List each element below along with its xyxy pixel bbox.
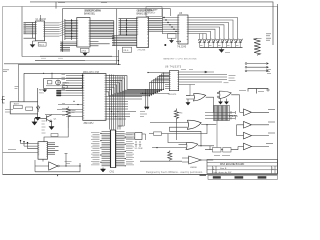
resistor RP1 zigzag <box>254 39 260 56</box>
hook bracket label <box>239 90 270 92</box>
latch cross dot B <box>200 145 202 147</box>
CPU U5 body <box>83 74 106 121</box>
CPU inner ticks left <box>83 76 85 119</box>
bank box 1 outline <box>63 9 171 52</box>
CN1 right pin labels <box>126 133 134 165</box>
IC U4 body <box>137 17 149 47</box>
connector bottom cap <box>110 167 116 169</box>
lower pin junction dots <box>110 109 121 119</box>
section bottom label -5.0V <box>41 57 63 59</box>
IC U1 left pins <box>24 22 36 38</box>
svg-text:Size B: Size B <box>220 168 227 170</box>
bank box right edge <box>170 9 172 16</box>
CPU left pin wires upper <box>61 76 83 96</box>
IC U3 body <box>178 15 188 44</box>
IC U3 left pin wires <box>162 18 178 34</box>
CN1 pin dots right <box>124 137 126 166</box>
IC U1 inner ticks <box>36 22 45 36</box>
B2 input <box>237 125 244 136</box>
B3 input <box>237 135 244 137</box>
bus arrow 2 dot <box>245 66 247 68</box>
bus arrow 3 dot <box>245 70 247 72</box>
frame bottom border <box>3 174 278 176</box>
oscillator crystal circle Y1 <box>56 80 61 85</box>
CN1 ground <box>100 168 105 173</box>
U3 bottom dot <box>164 44 166 46</box>
clock section wire <box>24 73 83 102</box>
A1 output <box>201 159 213 161</box>
B1 output <box>252 111 270 113</box>
title divider 2 <box>207 165 278 167</box>
wire bend U1 to bank1 <box>59 21 65 36</box>
svg-text:U1 LS138: U1 LS138 <box>36 19 47 21</box>
jumper box JA <box>213 148 222 153</box>
bank2 left rail <box>119 19 121 35</box>
ground G3 <box>49 122 54 130</box>
title divider 3 <box>207 169 278 171</box>
bottom strip left dash <box>200 174 207 176</box>
resistor network RN1 <box>214 106 230 121</box>
U3 ground <box>170 38 174 43</box>
svg-text:74LS373: 74LS373 <box>168 94 178 96</box>
U6 right wire arrow <box>204 71 207 73</box>
bottom strip dash 1 <box>213 176 221 178</box>
U7 input stubs with balls <box>21 144 39 149</box>
title cell line right2 <box>274 166 276 174</box>
IC U7 body <box>38 142 48 160</box>
CPU right bus staircase <box>106 73 169 96</box>
IC U1 left rail <box>31 22 33 38</box>
G3 output <box>231 95 239 112</box>
transistor Q1 <box>47 115 52 122</box>
left wire label <box>8 149 16 151</box>
B1 input <box>240 111 244 113</box>
bottom strip dash 1b <box>235 176 244 178</box>
IC U1 body <box>36 21 45 41</box>
jumper wires <box>205 147 238 150</box>
CN1 right pins <box>116 132 125 166</box>
svg-text:SELECT: SELECT <box>147 13 156 15</box>
U3 left junction dots diagonal <box>164 18 176 32</box>
drop labels <box>140 112 147 117</box>
diode row bottom bus <box>200 43 241 48</box>
X1 caps <box>135 141 141 147</box>
diode bottom rail <box>200 47 243 49</box>
G3 ground 1 <box>219 99 223 105</box>
svg-text:MSX ENGINE BOARD: MSX ENGINE BOARD <box>220 163 244 166</box>
opamp A1 <box>189 156 202 164</box>
frame right border <box>277 4 279 175</box>
B4 input <box>238 146 244 148</box>
diode D10 <box>36 105 39 112</box>
connector top cap <box>110 129 116 131</box>
G2 input wires <box>150 122 188 124</box>
wire riser bank2 <box>116 50 118 64</box>
wire below U6 <box>140 92 169 94</box>
frame bottom tick <box>57 175 59 177</box>
B1 label <box>268 109 275 111</box>
jumper label text <box>214 155 230 157</box>
left edge net label up <box>3 70 9 72</box>
connector CN1 body bar right <box>115 130 117 168</box>
svg-text:27C256: 27C256 <box>138 50 146 52</box>
title cell line left <box>212 166 214 174</box>
bus drop arrowheads <box>144 107 149 109</box>
diode array extra drops <box>200 34 203 40</box>
rail riser dots <box>118 61 120 65</box>
resistor R4 zigzag <box>174 109 178 121</box>
top edge label <box>58 2 107 4</box>
title divider 1 <box>207 161 278 163</box>
rail riser <box>118 50 120 64</box>
battery cell box 1 <box>14 105 23 109</box>
svg-text:CN1: CN1 <box>110 172 115 174</box>
crystal box X1 <box>135 133 142 140</box>
G3 input bubbles <box>217 92 219 94</box>
CPU left pin wires lower <box>57 105 83 117</box>
IC U3 inner ticks <box>178 18 188 40</box>
left edge clock labels <box>15 87 19 89</box>
svg-text:BANK0 SEL: BANK0 SEL <box>84 13 96 16</box>
svg-text:BATT: BATT <box>14 103 20 106</box>
R4 drop <box>176 121 178 141</box>
U7 inner ticks <box>38 144 48 157</box>
small box K1 <box>154 132 162 135</box>
wire rail B <box>35 60 85 62</box>
G4 output <box>198 146 214 150</box>
Q1 collector wire <box>45 114 68 117</box>
svg-text:MEMORY 1 CPU SECTIONS: MEMORY 1 CPU SECTIONS <box>164 59 198 61</box>
U7 loop wire <box>35 159 80 172</box>
IC U6 inner ticks <box>169 73 178 89</box>
OR gate G3 <box>219 91 231 98</box>
CPU left pin labels <box>58 75 66 116</box>
bank2 label box <box>122 47 131 52</box>
bank1 junction dots <box>71 21 73 37</box>
left border connector mark <box>2 97 6 104</box>
Y1 vertical line <box>57 80 59 85</box>
N1 output label <box>65 162 72 164</box>
hook bracket J2 <box>248 89 268 94</box>
bank2 lower-left bundle <box>112 36 137 46</box>
IC U6 body <box>169 71 178 91</box>
pin junction dots <box>74 101 78 104</box>
U6 lower left stubs <box>165 85 169 89</box>
buffer B3 <box>244 132 252 139</box>
ground G2 <box>32 118 37 125</box>
bank2 junction dots <box>126 20 128 34</box>
bus arrow 2 <box>247 66 269 68</box>
G4 input dot <box>156 147 158 149</box>
oscillator cap box <box>63 85 68 88</box>
bank box divider <box>116 9 118 50</box>
IC U4 right pin wires <box>149 19 163 32</box>
bank2 left rail B <box>126 19 128 35</box>
B2 label <box>268 121 275 123</box>
clock wire dots <box>44 72 52 74</box>
U6 right wire labels <box>224 76 236 83</box>
buffer B4 <box>244 143 252 150</box>
below U6 dots <box>143 73 148 94</box>
bank1 lower rail <box>61 42 63 51</box>
IC U1 ground <box>30 41 34 47</box>
svg-text:Z80 CPU: Z80 CPU <box>84 122 94 125</box>
G3 input bubble 2 <box>217 96 219 98</box>
wire long rail A <box>4 63 117 65</box>
inverter N1 <box>49 162 58 170</box>
B3 output <box>252 135 270 137</box>
svg-text:74LS: 74LS <box>39 45 45 47</box>
IC U4 inner ticks <box>137 19 149 47</box>
connector CN1 body bar left <box>110 130 112 168</box>
reset net vertical <box>37 88 39 102</box>
bank1 left rail B <box>71 19 73 40</box>
B2 output <box>252 124 270 126</box>
svg-text:2764: 2764 <box>81 51 87 53</box>
svg-text:MEM MAP: MEM MAP <box>147 9 158 12</box>
bottom strip dash 2 <box>258 176 267 178</box>
B4 output <box>252 146 270 148</box>
oscillator resistor box <box>47 81 52 84</box>
battery cell box 2 <box>26 107 33 110</box>
svg-text:Designed by Kevin Williams - u: Designed by Kevin Williams - used by per… <box>146 171 203 174</box>
RP1 top stub <box>254 38 262 40</box>
A1 bottom wire <box>140 160 182 162</box>
rail B <box>35 60 119 62</box>
U7 label box above <box>51 134 58 137</box>
right edge net labels <box>266 34 271 40</box>
U3 sub box <box>168 34 177 38</box>
IC U2A inner ticks <box>77 21 90 45</box>
bank1 right riser <box>113 21 115 39</box>
IC U1 top stub <box>39 15 41 21</box>
frame border <box>3 7 278 175</box>
rail A <box>19 63 121 65</box>
G1 ground <box>186 99 190 105</box>
OR gate G2 <box>187 120 201 129</box>
power drop to battery <box>18 64 20 102</box>
svg-text:74LS: 74LS <box>123 50 129 52</box>
osc box top stub <box>51 73 53 78</box>
OR gate G4 <box>186 142 198 149</box>
CPU left vertical drop <box>81 76 83 88</box>
IC U1 right pins wires <box>45 23 60 36</box>
ball dots <box>21 141 28 143</box>
U7 right pins <box>48 143 59 154</box>
svg-text:74LS245: 74LS245 <box>177 47 187 49</box>
oscillator mid wire <box>46 85 83 87</box>
svg-text:U6 74LS373: U6 74LS373 <box>165 67 182 69</box>
latch cross wire B <box>170 127 202 146</box>
bus arrow 3 <box>247 70 269 72</box>
CPU inner ticks right <box>105 76 107 119</box>
diode rail ground <box>219 48 224 53</box>
bank2 note box <box>146 7 162 17</box>
R3 label <box>72 111 76 113</box>
resistor R3 zigzag <box>66 107 71 129</box>
bus drop pair <box>146 90 148 109</box>
bus arrow 1 <box>247 63 269 65</box>
B3 label <box>268 132 275 134</box>
connector top joins <box>118 125 124 127</box>
G4 input wires <box>179 143 188 145</box>
net label column <box>42 121 46 133</box>
cap row <box>230 111 238 120</box>
U3 arrow mark <box>176 41 181 43</box>
riser corner dots <box>150 89 164 96</box>
bottom strip box <box>208 175 278 179</box>
bank1 lower-left bundle <box>60 42 77 51</box>
title cell line right <box>271 166 273 174</box>
svg-text:GENERIC EPROM/SRAM: GENERIC EPROM/SRAM <box>84 10 101 13</box>
bank1 ground <box>83 52 87 55</box>
IC U1 ground stub <box>33 40 36 42</box>
bank2 lower rail <box>113 36 115 46</box>
resistor R5 zigzag <box>168 151 172 162</box>
ground G1 <box>35 114 40 120</box>
A1 inputs <box>182 158 189 162</box>
latch cross dot A <box>206 124 208 126</box>
G1 output <box>206 97 214 112</box>
jumper box JB <box>223 148 231 153</box>
RN1 hatch <box>215 106 228 121</box>
bus arrow 1 dot <box>245 63 247 65</box>
left edge net label mid <box>5 110 13 113</box>
section bottom rail <box>22 56 119 58</box>
wire top tick <box>55 2 57 9</box>
U7 top wire to R3 <box>44 128 68 142</box>
diode ground label <box>225 52 230 54</box>
battery box <box>10 102 38 114</box>
bank1 left rail A <box>64 19 66 40</box>
G2 output <box>201 124 216 126</box>
X1 wires <box>125 134 146 140</box>
diode labels <box>200 45 239 47</box>
wire rail C <box>40 55 112 57</box>
CN1 left pin labels <box>91 133 100 165</box>
IC U1 label box <box>38 42 46 46</box>
U6 right pin top labels <box>181 69 193 71</box>
bank1 lower right stubs <box>90 42 110 46</box>
svg-text:LM386: LM386 <box>190 167 197 169</box>
CPU right lower pins <box>106 97 142 120</box>
bank1 label box <box>81 48 90 52</box>
U3 left riser <box>162 9 164 34</box>
title cell line left2 <box>215 166 217 174</box>
oscillator box <box>44 79 83 89</box>
G3 ground 2 <box>225 99 229 105</box>
title block outer <box>207 160 278 174</box>
IC U2A left pin wires <box>65 21 77 39</box>
IC U4 left pin wires <box>119 19 137 35</box>
bus drop verticals to connector <box>110 75 125 130</box>
svg-text:Date: drawn by KW: Date: drawn by KW <box>213 171 233 174</box>
CN1 pin dots left <box>100 133 102 162</box>
RN1 cross wires <box>205 113 235 119</box>
sense wire vertical <box>65 154 68 167</box>
G1 feed vertical <box>186 85 190 96</box>
latch cross wire A <box>168 125 207 143</box>
section box top-left <box>21 7 23 57</box>
CN1 left pins <box>102 132 111 166</box>
output loop dot <box>79 165 81 167</box>
oscillator ground <box>43 89 47 92</box>
diode array bus brackets <box>188 18 238 40</box>
right edge net label 2 <box>266 70 271 74</box>
ball tops <box>21 141 28 149</box>
B4 label <box>266 143 273 145</box>
IC U2A right pin wires <box>90 21 114 39</box>
svg-text:X1 CER: X1 CER <box>135 148 143 150</box>
diode row D1-D10 <box>198 39 243 44</box>
svg-text:Z80A CPU 3.58: Z80A CPU 3.58 <box>83 71 100 74</box>
svg-text:SW1: SW1 <box>39 92 45 94</box>
transistor Q1 base wire <box>35 117 47 119</box>
CPU left pin jumper rects <box>57 90 62 96</box>
CPU left drop dots <box>81 76 83 88</box>
N1 input wire <box>35 160 49 166</box>
buffer B1 <box>244 109 252 116</box>
G1 input wires <box>186 96 194 100</box>
IC U2A body <box>77 18 90 48</box>
N1 bubble <box>58 165 60 167</box>
wire from left border <box>3 152 38 154</box>
U6 right pin wires <box>179 72 227 85</box>
wire top net <box>30 2 273 45</box>
G4 lower input wire <box>152 147 186 149</box>
IC U1 left pin labels <box>24 23 27 33</box>
svg-text:RESET: RESET <box>39 90 47 92</box>
RN1 to jumper vertical <box>216 121 218 148</box>
buffer B2 <box>244 122 252 129</box>
N1 output <box>59 163 80 166</box>
sense wire dot <box>65 165 67 167</box>
OR gate G1 <box>194 94 206 101</box>
K1 wires <box>149 133 168 135</box>
